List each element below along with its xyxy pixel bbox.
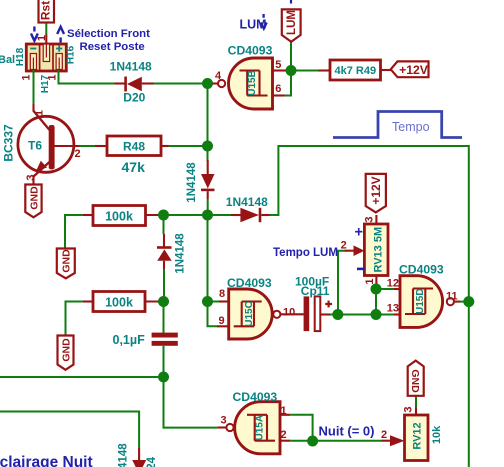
op-gate U15A (CD4093 NAND, mirrored): [218, 402, 290, 454]
svg-text:BC337: BC337: [2, 124, 16, 162]
svg-text:1N4148: 1N4148: [110, 60, 152, 74]
svg-text:1: 1: [21, 74, 33, 80]
pin 5 stub: [273, 69, 287, 71]
svg-text:U15B: U15B: [247, 70, 258, 96]
dashed blue stub above LUM flag: [290, 0, 292, 4]
junction bottom left: [158, 372, 169, 383]
svg-text:4k7 R49: 4k7 R49: [335, 65, 377, 77]
svg-text:Tempo: Tempo: [392, 120, 430, 134]
wire junction to U15B output pin 4: [208, 83, 213, 85]
wire bottom second horizontal to D24: [0, 412, 139, 449]
wire R48 to junction: [169, 145, 208, 147]
resistor R49 4k7: [319, 60, 392, 80]
op-gate U15D (CD4093 NAND): [394, 276, 460, 328]
wire bottom-left horizontal: [0, 376, 164, 378]
wire 100k lower left to GND: [66, 302, 83, 336]
minus sign (RV13): [357, 268, 366, 271]
junction 100k row left: [158, 210, 169, 221]
wire Tempo LUM vertical: [338, 251, 345, 315]
wire vertical D20 junction down: [207, 84, 209, 162]
junction at R48: [202, 141, 213, 152]
arrow down (dashed blue): [31, 27, 38, 41]
wire RV12 to GND flag: [415, 396, 417, 408]
wire junction down to capacitor: [163, 302, 165, 333]
capacitor Cp11 100uF (polarized): [304, 296, 332, 331]
svg-text:Nuit (= 0): Nuit (= 0): [319, 424, 375, 439]
wire between junctions: [164, 214, 208, 216]
junction RV13 pin1 / U15D pin12: [371, 284, 382, 295]
svg-text:Bal: Bal: [0, 54, 15, 66]
svg-text:10k: 10k: [431, 425, 443, 444]
svg-text:3: 3: [403, 406, 415, 412]
svg-text:U15A: U15A: [255, 415, 266, 441]
svg-text:3: 3: [221, 415, 227, 427]
resistor 100k (lower): [83, 292, 162, 312]
svg-text:H16: H16: [66, 45, 77, 64]
wire pin5 to junction: [287, 70, 292, 72]
svg-text:Reset Poste: Reset Poste: [80, 41, 145, 53]
wire pin6 loop up to junction: [285, 71, 292, 96]
svg-text:100k: 100k: [105, 209, 133, 223]
svg-text:Cp11: Cp11: [301, 284, 330, 298]
svg-text:GND: GND: [61, 249, 73, 273]
svg-text:1N4148: 1N4148: [118, 443, 130, 467]
junction U15C pin8: [202, 296, 213, 307]
svg-text:D24: D24: [146, 456, 158, 467]
svg-text:1: 1: [47, 74, 59, 80]
svg-text:GND: GND: [28, 186, 40, 210]
op-gate U15B (CD4093 NAND, mirrored): [218, 58, 273, 109]
svg-text:2: 2: [75, 148, 81, 160]
wire pin1 loop down: [290, 415, 312, 441]
supply flag +12V (top right): [391, 61, 429, 77]
waveform Tempo: [333, 112, 462, 138]
svg-text:GND: GND: [60, 338, 72, 362]
capacitor 0,1uF: [152, 333, 178, 346]
wire connector right pad to D20: [59, 70, 115, 84]
svg-text:100k: 100k: [105, 295, 133, 309]
diode D24 1N4148 (bottom edge, cathode down): [132, 448, 146, 467]
svg-text:RV13 5M: RV13 5M: [373, 227, 385, 273]
diode 1N4148 (vertical, cathode down): [201, 160, 215, 199]
svg-text:8: 8: [219, 288, 225, 300]
potentiometer RV12 10k: [382, 408, 429, 461]
svg-text:LUM: LUM: [286, 10, 298, 35]
resistor 100k (upper): [83, 206, 162, 226]
op-gate U15C (CD4093 NAND): [217, 289, 304, 339]
junction cap right: [332, 309, 343, 320]
svg-text:3: 3: [25, 174, 37, 180]
ground flag (T6 emitter): [25, 185, 41, 218]
svg-text:11: 11: [446, 291, 458, 303]
svg-text:RV12: RV12: [412, 422, 424, 449]
junction at pin5: [286, 65, 297, 76]
wire junction to U15D pin12: [376, 288, 394, 290]
svg-text:2: 2: [381, 429, 387, 441]
pin 6 stub: [273, 94, 285, 96]
wire junction to R49: [291, 70, 319, 72]
wire U15C pin8 from junction: [207, 215, 209, 302]
svg-text:D20: D20: [123, 91, 145, 105]
wire junction to diode: [208, 214, 232, 216]
svg-text:Tempo LUM: Tempo LUM: [273, 247, 338, 259]
svg-text:3: 3: [364, 216, 376, 222]
junction lower 100k: [158, 296, 169, 307]
svg-text:Sélection Front: Sélection Front: [67, 28, 150, 40]
connector JP (solder jumper H16/H17/H18): [26, 44, 66, 71]
svg-text:6: 6: [275, 83, 281, 95]
wire diode to 100k lower junction: [163, 269, 165, 302]
wire cap to junction: [330, 314, 338, 316]
svg-text:1: 1: [34, 110, 46, 116]
ground flag (above RV12, pointing up): [408, 361, 424, 396]
svg-text:1: 1: [281, 405, 287, 417]
junction U15A output net: [307, 436, 318, 447]
wire Rst to connector: [45, 23, 47, 35]
wire diode to Tempo loop corner, up and right, down right side: [270, 146, 469, 467]
T6 base pin (red): [54, 145, 80, 147]
supply flag +12V (above RV13): [366, 174, 386, 213]
svg-text:R48: R48: [123, 140, 145, 154]
svg-text:H18: H18: [15, 47, 26, 66]
wire U15D output to right rail: [460, 301, 469, 303]
diode 1N4148 (vertical, cathode up): [157, 234, 172, 269]
diode 1N4148 (horizontal, cathode right): [231, 208, 270, 222]
svg-text:9: 9: [219, 315, 225, 327]
svg-text:1N4148: 1N4148: [226, 195, 268, 209]
diode D20 1N4148: [115, 77, 154, 92]
transistor Q T6 BC337: [18, 104, 74, 185]
ground flag (lower left): [58, 336, 74, 370]
resistor R48 47k: [95, 136, 169, 156]
wire connector left pad down to T6 collector: [33, 70, 35, 106]
svg-text:2: 2: [281, 429, 287, 441]
wire U15C pin9 loop: [208, 302, 218, 327]
svg-text:Rst: Rst: [39, 1, 53, 20]
wire junction to U15D pin13: [338, 314, 394, 316]
junction at D20/U15B output: [202, 78, 213, 89]
svg-text:CD4093: CD4093: [227, 276, 272, 290]
wire T6 base to R48: [80, 145, 96, 147]
svg-text:0,1µF: 0,1µF: [113, 333, 146, 347]
svg-text:+12V: +12V: [369, 176, 383, 204]
svg-text:10: 10: [283, 306, 295, 318]
wire D20 to junction: [154, 83, 208, 85]
svg-text:T6: T6: [28, 139, 42, 153]
svg-text:éclairage Nuit: éclairage Nuit: [0, 454, 93, 467]
svg-text:1: 1: [364, 278, 376, 284]
svg-text:+12V: +12V: [399, 63, 429, 77]
svg-text:CD4093: CD4093: [233, 390, 278, 404]
ground flag (upper left): [57, 249, 75, 279]
potentiometer RV13 5M: [345, 215, 389, 289]
wire junction to RV12: [313, 440, 382, 442]
svg-text:U15D: U15D: [415, 288, 426, 314]
wire diode to junction row: [207, 199, 209, 215]
flag LUM: [282, 9, 301, 41]
svg-text:CD4093: CD4093: [228, 44, 273, 58]
svg-text:+: +: [355, 225, 363, 241]
junction 100k row right: [202, 210, 213, 221]
svg-text:CD4093: CD4093: [399, 263, 444, 277]
flag Rst: [39, 0, 55, 23]
wire pin2 to junction: [290, 440, 312, 442]
wire capacitor down to bottom junction: [163, 346, 165, 377]
svg-text:47k: 47k: [122, 159, 146, 175]
wire junction down then right to U15A pin3: [164, 377, 219, 428]
arrow up (dashed blue): [57, 27, 64, 43]
svg-text:1N4148: 1N4148: [186, 162, 198, 203]
junction right rail: [463, 296, 474, 307]
svg-text:1N4148: 1N4148: [175, 233, 187, 274]
wire 100k left to GND: [65, 215, 83, 249]
svg-text:2: 2: [341, 239, 347, 251]
wire vertical left chain down from junction: [163, 215, 165, 234]
wire junction down to pin13 junction: [375, 289, 377, 315]
svg-text:5: 5: [275, 59, 281, 71]
wire LUM flag down to junction: [290, 42, 292, 71]
svg-text:13: 13: [387, 303, 399, 315]
svg-text:GND: GND: [409, 369, 421, 393]
junction U15D pin13: [371, 309, 382, 320]
svg-text:12: 12: [387, 278, 399, 290]
svg-text:U15C: U15C: [244, 301, 255, 327]
connector H pin stub top: [45, 35, 47, 46]
